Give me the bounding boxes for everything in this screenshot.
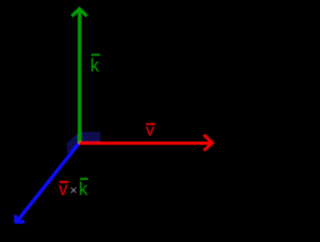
wire: green axis shaft (k): [78, 10, 82, 143]
wire: red axis shaft (v): [79, 142, 210, 145]
label v-cross-k: green k overbar: [80, 178, 88, 180]
label k overbar: [91, 54, 100, 56]
svg-text:k: k: [90, 55, 100, 75]
right-angle marker parallelogram (k / v-cross-k plane): [67, 132, 80, 154]
wire: blue axis shaft (v cross k): [17, 143, 79, 221]
svg-text:×: ×: [70, 183, 78, 198]
svg-text:k: k: [79, 179, 89, 199]
label v-cross-k: red v overbar: [59, 181, 68, 183]
svg-text:v: v: [59, 179, 68, 199]
right-angle marker rectangle (v-k plane): [80, 132, 101, 142]
red arrowhead: [204, 135, 213, 151]
green arrowhead: [72, 9, 87, 16]
label v overbar: [146, 123, 155, 125]
blue arrowhead: [16, 215, 25, 222]
svg-text:v: v: [146, 121, 155, 140]
